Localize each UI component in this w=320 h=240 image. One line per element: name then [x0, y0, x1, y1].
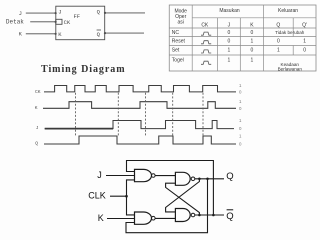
- svg-text:0: 0: [239, 106, 242, 111]
- svg-text:K: K: [250, 22, 254, 28]
- svg-text:asi: asi: [177, 20, 183, 26]
- svg-text:Togel: Togel: [172, 57, 184, 63]
- waveform Q: [44, 136, 236, 144]
- svg-text:Berlawanan: Berlawanan: [278, 66, 303, 71]
- svg-text:1: 1: [239, 134, 242, 139]
- svg-text:Set: Set: [172, 47, 180, 53]
- svg-text:0: 0: [251, 47, 254, 53]
- svg-text:0: 0: [227, 38, 230, 44]
- svg-text:Q: Q: [97, 8, 101, 15]
- svg-text:K: K: [98, 213, 104, 223]
- svg-text:CK: CK: [35, 89, 41, 95]
- svg-text:0: 0: [239, 89, 242, 94]
- svg-text:J: J: [228, 22, 231, 28]
- svg-text:0: 0: [303, 47, 306, 53]
- clock edge indicator box: [56, 19, 62, 24]
- svg-text:K: K: [58, 31, 62, 38]
- svg-text:Q: Q: [35, 141, 38, 147]
- svg-text:1: 1: [239, 83, 242, 88]
- level labels K: [239, 99, 242, 111]
- wire cross Q to U4: [166, 179, 200, 212]
- wire CLK rail: [127, 180, 135, 215]
- svg-text:NC: NC: [172, 30, 180, 36]
- junction CLK: [125, 195, 128, 198]
- svg-text:Masukan: Masukan: [219, 8, 240, 14]
- svg-text:Q: Q: [226, 211, 233, 222]
- svg-text:Tidak berubah: Tidak berubah: [275, 30, 305, 35]
- svg-text:0: 0: [227, 30, 230, 36]
- svg-text:CLK: CLK: [88, 190, 106, 200]
- nand gate U4: [175, 209, 194, 222]
- svg-text:Detak: Detak: [6, 19, 24, 26]
- wire Q' feedback to U1: [127, 161, 214, 216]
- level labels Q: [239, 134, 242, 147]
- wire U1 to U3: [155, 175, 175, 177]
- wire J to U1: [106, 175, 135, 177]
- svg-text:0: 0: [239, 126, 242, 131]
- dashed timing line t3: [145, 93, 147, 137]
- svg-text:Reset: Reset: [172, 38, 186, 44]
- wire Q' output line: [195, 214, 224, 216]
- wire U2 to U4: [155, 217, 175, 219]
- svg-text:0: 0: [277, 38, 280, 44]
- wire Detak to FF1: [30, 21, 57, 23]
- svg-text:Q: Q: [97, 31, 101, 38]
- svg-text:J: J: [97, 170, 102, 180]
- junction Q b: [206, 178, 209, 181]
- wire Q output of FF1: [104, 12, 145, 14]
- level labels J: [239, 118, 242, 131]
- svg-text:1: 1: [303, 38, 306, 44]
- nand gate U1: [135, 169, 156, 181]
- svg-text:K: K: [35, 105, 38, 111]
- svg-text:J: J: [19, 10, 22, 17]
- truth table: [169, 5, 316, 71]
- level labels CK: [239, 83, 242, 94]
- nand gate U3: [175, 172, 194, 185]
- dashed timing line t5: [202, 93, 204, 137]
- junction Q' a: [198, 214, 201, 217]
- dashed timing line t4: [172, 93, 174, 137]
- dashed timing line t2: [117, 93, 119, 137]
- wire Q' output of FF1: [104, 32, 144, 34]
- pin label Q': [97, 30, 101, 38]
- wire Q output line: [195, 178, 224, 180]
- junction Q a: [198, 178, 201, 181]
- node Q' output: [226, 210, 233, 222]
- svg-text:1: 1: [227, 47, 230, 53]
- svg-text:Q: Q: [226, 171, 233, 182]
- junction Q' b: [212, 214, 215, 217]
- wire Q feedback to U2: [126, 179, 208, 233]
- svg-text:0: 0: [239, 142, 242, 147]
- svg-text:1: 1: [251, 38, 254, 44]
- wire cross Q' to U3: [166, 183, 200, 215]
- svg-text:CK: CK: [201, 22, 209, 28]
- svg-text:1: 1: [277, 47, 280, 53]
- svg-text:1: 1: [251, 57, 254, 63]
- svg-text:CK: CK: [64, 19, 71, 26]
- svg-text:Q: Q: [276, 22, 280, 28]
- svg-text:Timing Diagram: Timing Diagram: [41, 64, 126, 75]
- svg-text:Keluaran: Keluaran: [278, 8, 298, 14]
- svg-text:1: 1: [239, 99, 242, 104]
- waveform J: [45, 121, 234, 129]
- flip-flop FF1 body: [56, 6, 105, 40]
- svg-text:FF: FF: [74, 13, 81, 20]
- svg-text:Q': Q': [302, 22, 307, 28]
- svg-text:1: 1: [239, 118, 242, 123]
- wire J to FF1: [26, 12, 57, 14]
- wire K to FF1: [26, 33, 57, 35]
- wire CLK: [110, 195, 127, 197]
- nand gate U2: [135, 212, 156, 224]
- wire K to U2: [107, 218, 135, 220]
- waveform CK: [44, 86, 236, 92]
- dashed timing line t1: [75, 93, 77, 137]
- svg-text:J: J: [58, 8, 61, 15]
- svg-text:J: J: [36, 125, 39, 131]
- svg-text:0: 0: [251, 30, 254, 36]
- svg-text:K: K: [19, 30, 23, 37]
- svg-text:1: 1: [227, 57, 230, 63]
- waveform K: [43, 102, 236, 109]
